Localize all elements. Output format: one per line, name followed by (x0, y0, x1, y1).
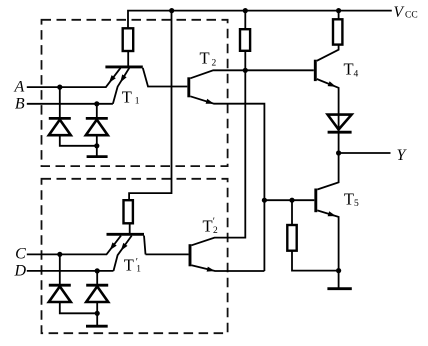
svg-text:D: D (13, 262, 26, 279)
svg-text:T: T (344, 189, 354, 208)
svg-text:2: 2 (212, 59, 217, 69)
svg-text:T: T (344, 60, 354, 79)
svg-text:CC: CC (405, 11, 418, 21)
svg-text:T: T (200, 49, 210, 68)
svg-text:V: V (394, 4, 405, 21)
svg-text:T: T (124, 256, 134, 275)
svg-text:1: 1 (135, 97, 140, 107)
svg-text:2: 2 (213, 226, 218, 236)
svg-text:4: 4 (354, 69, 359, 79)
svg-text:5: 5 (354, 199, 359, 209)
svg-text:T: T (203, 216, 213, 235)
svg-text:A: A (14, 78, 25, 95)
svg-text:1: 1 (136, 264, 141, 274)
svg-text:T: T (122, 87, 132, 106)
svg-text:B: B (15, 95, 25, 112)
svg-text:C: C (15, 246, 26, 263)
